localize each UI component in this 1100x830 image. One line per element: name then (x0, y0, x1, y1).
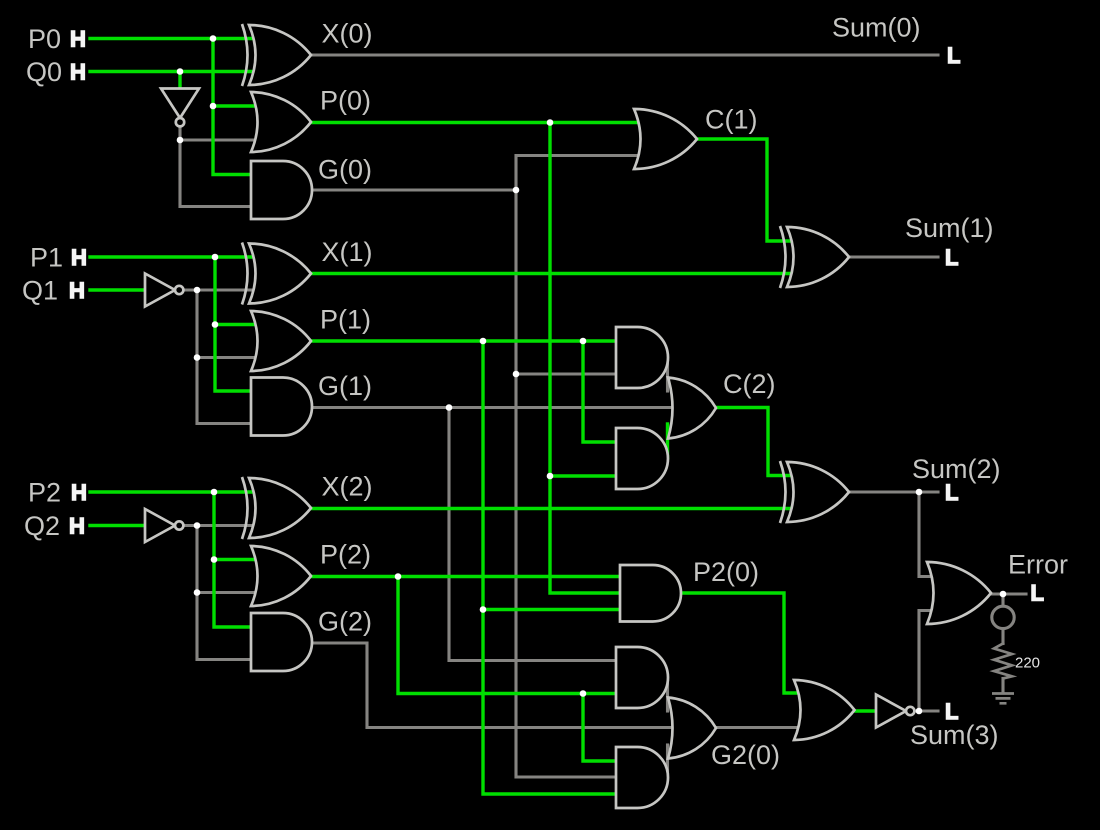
wire G(2) output to OR-G2 middle input (312, 643, 676, 728)
svg-text:P(2): P(2) (320, 540, 371, 570)
svg-text:Q0: Q0 (26, 57, 62, 87)
wire LED to resistor (1001, 631, 1004, 644)
wire G2(0) output to big OR input B (717, 726, 803, 729)
wire G(0) output (312, 188, 516, 191)
svg-text:P(0): P(0) (320, 86, 371, 116)
wire Sum(1) output (849, 255, 938, 258)
wire big OR output to NOT3 (855, 709, 878, 712)
wire input Q2 to NOT2 (90, 524, 145, 527)
wire Error to LED (1001, 594, 1004, 605)
resistor R1 220 ohm (994, 644, 1012, 679)
wire P(2) bus down to AND3 input B (398, 577, 624, 694)
wire Q0 to NOT0 input (178, 72, 181, 92)
wire G(1) bus down to AND3 input A (449, 408, 624, 661)
junction P1 to P(1) (212, 321, 219, 328)
junction G(1) branch (446, 404, 453, 411)
svg-text:P2: P2 (28, 478, 61, 508)
svg-text:220: 220 (1015, 655, 1040, 672)
wire Error output (991, 592, 1026, 595)
wire branch down to AND4 input A (583, 694, 624, 762)
and gate P2(0) 3-input (620, 565, 681, 622)
svg-text:C(2): C(2) (723, 369, 776, 399)
svg-text:L: L (947, 43, 960, 68)
wire X(2) output to Sum(2) XOR input B (311, 507, 797, 510)
svg-text:H: H (70, 60, 86, 85)
wire C(2) output to Sum(2) XOR input A (717, 408, 797, 476)
or gate final carry OR (794, 680, 855, 740)
inverter NOT1 on Q1 (145, 274, 175, 307)
wire X(0) output to Sum(0) (311, 53, 938, 56)
svg-text:L: L (945, 245, 958, 270)
junction branch to AND4 (580, 690, 587, 697)
junction Error to LED (1000, 591, 1007, 598)
junction G(0) branch (513, 187, 520, 194)
wire resistor to ground (1001, 679, 1004, 693)
junction inverted Q1 branch (194, 287, 201, 294)
wire AND3 output jog to OR-G2 (666, 678, 669, 712)
junction G(0) bus to AND-C2a (513, 371, 520, 378)
wire P(0) bus to AND-C2b input B (550, 474, 624, 477)
svg-text:Sum(1): Sum(1) (905, 213, 994, 243)
junction Sum(3) to Error (916, 708, 923, 715)
wire P(0) output to C(1) input A (311, 121, 644, 124)
wire inverted Q1 bus down to G(1) input B (197, 290, 256, 424)
or gate C(2) 3-input (668, 378, 716, 439)
wire NOT2 output to X(2) input B (185, 524, 256, 527)
wire P2 bus down to G(2) input A (214, 492, 256, 627)
svg-text:Sum(0): Sum(0) (832, 13, 921, 43)
wire inverted Q0 to P(0) input B (180, 138, 261, 141)
and gate G2-upper AND3 (616, 647, 668, 708)
wire Sum(2) to Error OR input A (919, 492, 937, 577)
xor gate X(0) (242, 24, 248, 86)
junction P2 to P(2) (211, 556, 218, 563)
svg-text:G2(0): G2(0) (711, 740, 780, 770)
xor gate X(1) (242, 243, 248, 305)
svg-text:L: L (945, 699, 958, 724)
svg-text:Sum(3): Sum(3) (910, 720, 999, 750)
junction P(0) bus to AND-C2b (547, 473, 554, 480)
svg-text:P0: P0 (28, 24, 61, 54)
junction P0 to P(0) (210, 103, 217, 110)
junction P0 branch (210, 35, 217, 42)
wire G(0) bus down to AND4 input B (516, 190, 624, 777)
and gate G(1) (251, 378, 312, 436)
wire input Q1 to NOT1 (90, 288, 145, 291)
ground symbol (992, 694, 1014, 704)
junction P(2) branch (395, 573, 402, 580)
svg-text:H: H (69, 514, 85, 539)
wire G(0) to C(1) input B (516, 156, 644, 191)
svg-text:G(0): G(0) (318, 155, 372, 185)
wire P(1) output to AND-C2a input A (311, 339, 624, 342)
svg-text:H: H (71, 480, 87, 505)
LED indicator on Error output (992, 606, 1014, 628)
wire NOT0 output down to G(0) input B (180, 127, 256, 207)
junction inverted Q0 branch (177, 137, 184, 144)
wire NOT3 output to Sum(3) (915, 709, 939, 712)
wire Sum(2) output (849, 490, 938, 493)
wire P(1) bus down to AND4 input C (483, 341, 624, 794)
and gate G(0) (251, 161, 312, 219)
inverter NOT0 on Q0 (161, 89, 199, 119)
wire input Q0 (90, 70, 256, 73)
wire P1 bus down to G(1) input A (215, 257, 256, 391)
svg-text:H: H (69, 278, 85, 303)
and gate C2-lower (616, 428, 668, 489)
svg-text:P(1): P(1) (320, 305, 371, 335)
svg-text:Q1: Q1 (22, 276, 58, 306)
xor gate Sum(1) (780, 226, 786, 288)
junction P2 branch (211, 489, 218, 496)
wire P0 to P(0) input A (213, 104, 261, 107)
and gate C2-upper (616, 327, 668, 388)
svg-text:L: L (1031, 581, 1044, 606)
wire P(2) output to P2(0) input A (311, 575, 628, 578)
wire input P1 (90, 255, 256, 258)
wire inverted Q2 bus down to G(2) input B (197, 526, 256, 660)
svg-text:X(2): X(2) (322, 472, 373, 502)
inverter NOT2 on Q2 (145, 509, 175, 542)
junction P(1) bus to P2(0) (480, 606, 487, 613)
wire P1 to P(1) input A (215, 323, 261, 326)
svg-text:P2(0): P2(0) (693, 557, 759, 587)
wire AND-C2a output jog to OR-C2 (666, 357, 669, 391)
junction inverted Q2 to P(2) (194, 589, 201, 596)
and gate G(2) (251, 613, 312, 671)
or gate P(2) (251, 546, 311, 606)
wire AND-C2b output jog to OR-C2 (666, 424, 669, 458)
wire P0 bus down to G(0) input A (213, 39, 256, 175)
wire P2 to P(2) input A (214, 558, 261, 561)
svg-text:H: H (71, 245, 87, 270)
or gate P(1) (251, 311, 311, 371)
svg-text:G(1): G(1) (318, 371, 372, 401)
xor gate Sum(2) (780, 461, 786, 523)
wire P(0) bus down to P2(0) input B (550, 123, 628, 594)
svg-text:C(1): C(1) (705, 105, 758, 135)
or gate C(1) (634, 109, 697, 169)
svg-text:H: H (70, 27, 86, 52)
junction inverted Q2 branch (194, 522, 201, 529)
wire input P0 (90, 37, 256, 40)
svg-text:L: L (945, 480, 958, 505)
wire NOT1 output to X(1) input B (185, 288, 256, 291)
wire P(1) bus to P2(0) input C (483, 608, 628, 611)
wire C(1) output to Sum(1) XOR input A (697, 139, 797, 241)
junction P1 branch (212, 254, 219, 261)
wire Sum(3) to Error OR input B (919, 611, 937, 712)
inverter NOT3 Sum(3) (876, 695, 906, 728)
junction P(1) branch (480, 338, 487, 345)
svg-text:X(0): X(0) (322, 19, 373, 49)
junction Q0 branch (177, 68, 184, 75)
wire input P2 (90, 490, 256, 493)
wire P(1) line down to AND-C2b input A (583, 341, 624, 442)
wire X(1) output to Sum(1) XOR input B (311, 272, 797, 275)
wire G(0) bus to AND-C2a input B (516, 372, 624, 375)
svg-text:Error: Error (1008, 550, 1068, 580)
svg-text:X(1): X(1) (322, 237, 373, 267)
wire G(1) output to OR-C2 middle input (312, 406, 676, 409)
wire inverted Q1 to P(1) input B (197, 356, 261, 359)
or gate P(0) (251, 92, 311, 152)
junction Sum(2) to Error (916, 489, 923, 496)
and gate G2-lower AND4 3-input (616, 747, 668, 808)
junction inverted Q1 to P(1) (194, 354, 201, 361)
or gate Error (927, 562, 991, 624)
junction P(1) to AND-C2b feed (580, 338, 587, 345)
svg-text:Q2: Q2 (24, 511, 60, 541)
wire inverted Q2 to P(2) input B (197, 591, 261, 594)
svg-text:G(2): G(2) (318, 607, 372, 637)
xor gate X(2) (242, 477, 248, 539)
wire P2(0) output to big OR input A (681, 593, 803, 693)
wire AND4 output jog to OR-G2 (666, 745, 669, 778)
svg-text:P1: P1 (30, 243, 63, 273)
or gate G2(0) 3-input (668, 698, 716, 759)
junction P(0) branch (547, 119, 554, 126)
